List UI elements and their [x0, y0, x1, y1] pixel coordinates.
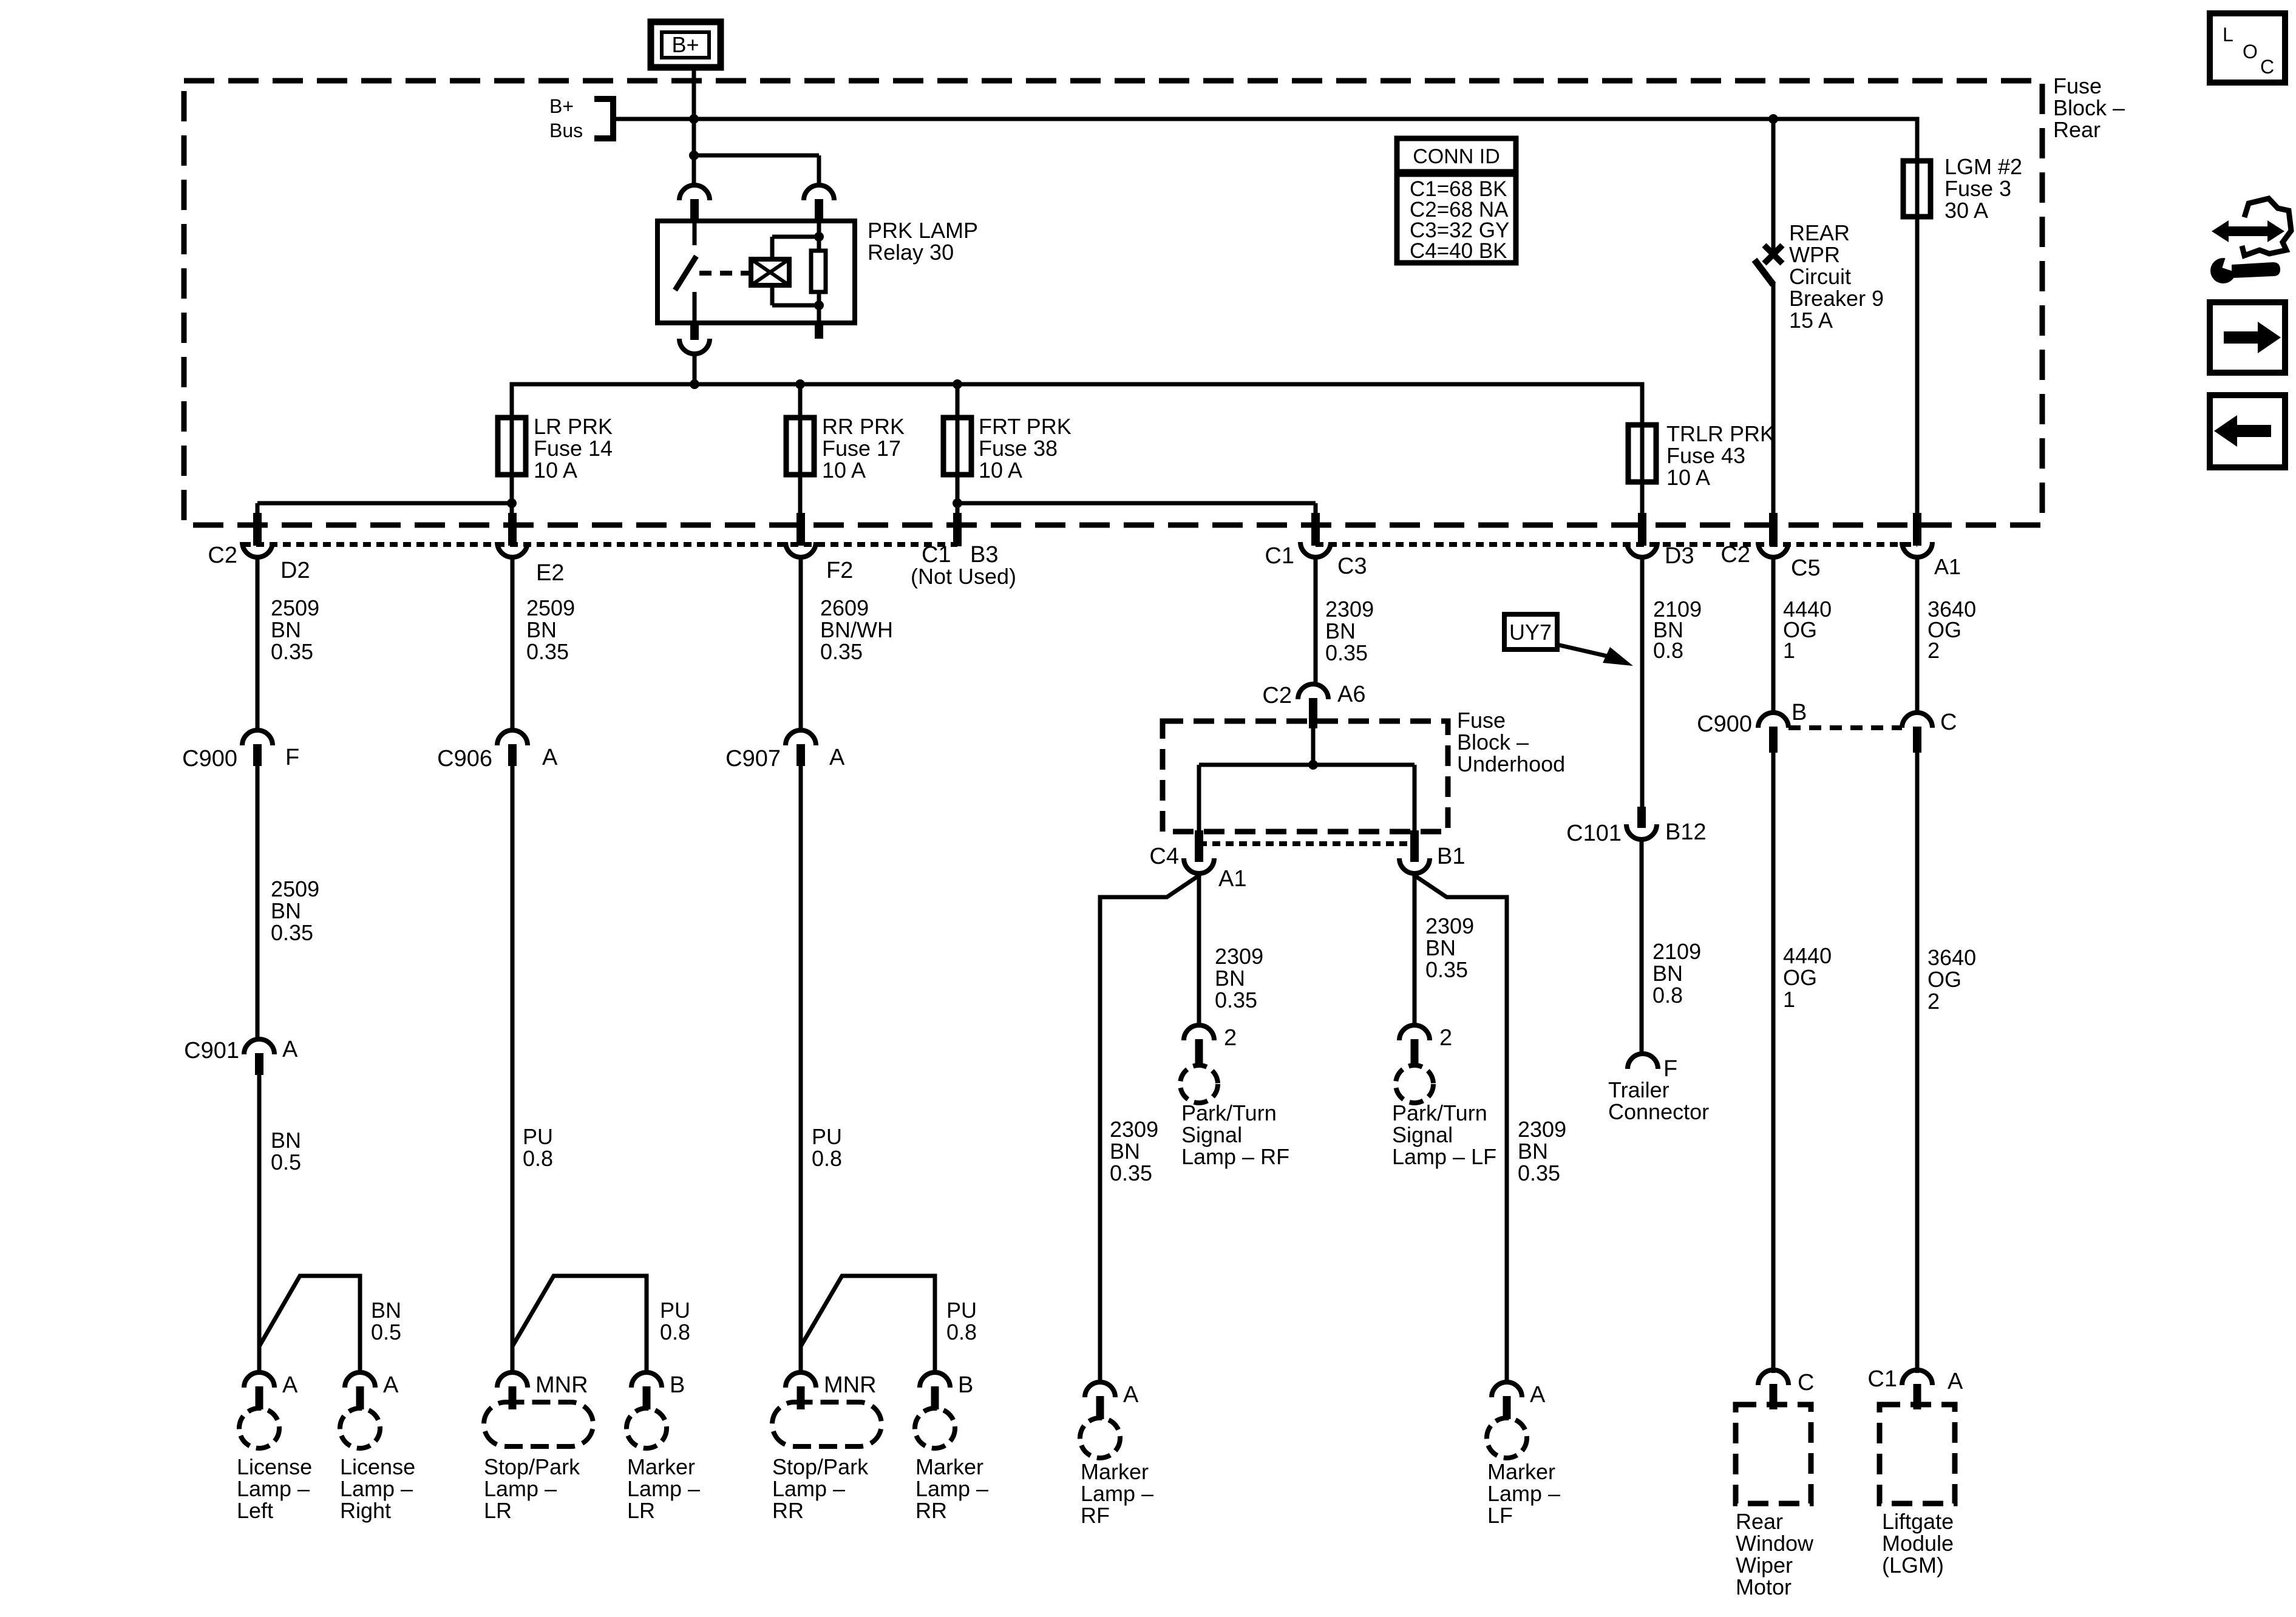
wire F2 to C907 — [799, 557, 803, 731]
svg-text:0.35: 0.35 — [271, 639, 313, 664]
connector trailer pin F (dome) — [1628, 1054, 1658, 1069]
svg-text:Window: Window — [1736, 1531, 1814, 1556]
svg-text:C1: C1 — [1265, 543, 1294, 569]
svg-text:B: B — [670, 1372, 685, 1398]
svg-text:C901: C901 — [184, 1038, 239, 1063]
connector row dotted line C1/C2 rear fuse block — [243, 542, 957, 547]
svg-text:BN: BN — [271, 898, 301, 923]
wire C906 to LR lamps — [511, 766, 515, 1373]
svg-text:10 A: 10 A — [1666, 465, 1710, 490]
connector Marker Lamp RR pin B (dome) — [920, 1372, 950, 1409]
svg-text:Stop/Park: Stop/Park — [484, 1454, 580, 1479]
svg-text:B1: B1 — [1437, 844, 1465, 869]
label wire 2309 BN 0.35 (park/turn LF) — [1425, 914, 1474, 982]
svg-text:Connector: Connector — [1608, 1099, 1709, 1124]
svg-text:RR: RR — [915, 1498, 947, 1523]
svg-text:C5: C5 — [1791, 555, 1821, 581]
icon hand-tool navigation — [2210, 198, 2291, 283]
B+ bus wire — [613, 119, 1917, 164]
junction coil top — [814, 232, 824, 242]
connector Stop/Park Lamp LR pin MNR (dome) — [497, 1372, 528, 1409]
wire relay output to distribution — [693, 354, 697, 384]
svg-text:10 A: 10 A — [979, 458, 1022, 483]
wire C5 to C900 B — [1771, 557, 1776, 713]
svg-text:Lamp –: Lamp – — [237, 1476, 310, 1501]
svg-text:3640: 3640 — [1927, 945, 1976, 970]
svg-text:D2: D2 — [280, 558, 310, 583]
svg-text:Circuit: Circuit — [1789, 264, 1851, 289]
svg-text:Signal: Signal — [1181, 1122, 1242, 1147]
label wire PU 0.8 (marker RR) — [946, 1298, 977, 1344]
wire FRT PRK fuse output — [956, 388, 960, 515]
underhood internal wire — [1199, 765, 1415, 830]
fuse LGM #2 Fuse 3 30A — [1903, 161, 1931, 217]
wire B+ box to bus — [692, 67, 696, 119]
svg-text:Right: Right — [340, 1498, 391, 1523]
svg-text:RR: RR — [772, 1498, 804, 1523]
svg-text:A1: A1 — [1934, 554, 1961, 579]
svg-text:Underhood: Underhood — [1457, 751, 1565, 776]
junction relay branch — [689, 151, 699, 160]
svg-text:A: A — [1948, 1369, 1963, 1394]
Rear Window Wiper Motor dashed box — [1736, 1405, 1811, 1503]
wire RR PRK fuse output — [798, 388, 803, 525]
svg-text:BN: BN — [371, 1298, 401, 1323]
svg-text:Stop/Park: Stop/Park — [772, 1454, 869, 1479]
label wire 2609 BN/WH 0.35 (F2) — [820, 595, 893, 664]
svg-text:REAR: REAR — [1789, 220, 1850, 245]
svg-text:L: L — [2223, 24, 2233, 46]
wire C3 to A6 — [1314, 557, 1318, 685]
B+ bus bracket — [594, 99, 613, 138]
svg-text:A: A — [829, 745, 845, 770]
svg-text:0.8: 0.8 — [1653, 638, 1683, 663]
svg-text:LR PRK: LR PRK — [534, 414, 613, 439]
label wire 2509 BN 0.35 (C900-C901) — [271, 876, 319, 945]
label Marker Lamp - RF — [1081, 1459, 1153, 1528]
connector liftgate C1 pin A (dome) — [1902, 1370, 1932, 1409]
label wire PU 0.8 (RR) — [812, 1124, 842, 1171]
Park/Turn Signal Lamp RF bulb (dashed circle) — [1180, 1065, 1218, 1103]
svg-text:2309: 2309 — [1325, 597, 1374, 622]
svg-text:Trailer: Trailer — [1608, 1077, 1669, 1102]
label wire 2309 BN 0.35 (marker LF) — [1518, 1117, 1566, 1185]
svg-text:B12: B12 — [1665, 819, 1707, 845]
wire branch to relay switch side — [692, 155, 696, 186]
svg-text:Signal: Signal — [1392, 1122, 1453, 1147]
relay coil ground stub — [815, 323, 823, 339]
connector C901 pin A (dome) — [244, 1039, 274, 1075]
label wire PU 0.8 (marker LR) — [660, 1298, 690, 1344]
svg-text:PU: PU — [660, 1298, 690, 1323]
svg-text:C101: C101 — [1566, 821, 1622, 846]
connector Marker Lamp LF pin A (dome) — [1492, 1382, 1522, 1419]
wire A1 to C — [1915, 557, 1920, 713]
fuse block underhood dashed box — [1163, 721, 1448, 832]
svg-text:1: 1 — [1783, 638, 1795, 663]
svg-text:0.8: 0.8 — [1652, 983, 1683, 1008]
wire LR PRK fuse output — [510, 425, 514, 525]
connector Marker Lamp LR pin B (dome) — [631, 1372, 662, 1409]
svg-text:2509: 2509 — [271, 876, 319, 901]
connector pin C2-E2 (stub into cup) — [497, 513, 528, 557]
wire C101 to trailer connector — [1640, 839, 1644, 1054]
svg-text:BN: BN — [1325, 619, 1356, 643]
svg-text:A: A — [1530, 1382, 1546, 1408]
wire B1 to park/turn LF and marker LF — [1413, 873, 1507, 1383]
UY7 option callout box with arrow — [1504, 614, 1633, 666]
connector C2 pin A6 (dome) — [1298, 684, 1328, 728]
svg-text:O: O — [2243, 41, 2258, 63]
svg-text:Fuse: Fuse — [2053, 73, 2102, 98]
label License Lamp - Right — [340, 1454, 415, 1523]
svg-text:Lamp –: Lamp – — [1081, 1481, 1153, 1506]
CONN ID table — [1397, 138, 1516, 263]
label wire BN 0.5 (C901) — [271, 1128, 301, 1175]
svg-text:A1: A1 — [1218, 866, 1246, 892]
battery feed B+ terminal box — [651, 22, 721, 67]
svg-text:(Not Used): (Not Used) — [911, 564, 1016, 589]
svg-text:0.8: 0.8 — [523, 1146, 553, 1171]
svg-text:Marker: Marker — [915, 1454, 983, 1479]
svg-text:C2: C2 — [1720, 542, 1750, 568]
Stop/Park Lamp RR bulb (dashed stadium) — [772, 1402, 881, 1446]
wire D3 to C101 — [1640, 557, 1645, 808]
Marker Lamp LF bulb (dashed circle) — [1487, 1418, 1527, 1458]
svg-text:C1: C1 — [1867, 1366, 1897, 1392]
label TRLR PRK Fuse 43 10 A — [1666, 421, 1775, 490]
icon back arrow box — [2210, 395, 2285, 467]
svg-text:2109: 2109 — [1652, 939, 1701, 964]
connector pin C1-F2 (stub into cup) — [786, 513, 816, 557]
svg-text:PU: PU — [812, 1124, 842, 1149]
svg-text:C4=40 BK: C4=40 BK — [1410, 239, 1507, 263]
label Marker Lamp - RR — [915, 1454, 988, 1523]
svg-text:Lamp –: Lamp – — [772, 1476, 845, 1501]
svg-text:(LGM): (LGM) — [1882, 1553, 1944, 1578]
svg-text:30 A: 30 A — [1944, 198, 1988, 223]
svg-text:2: 2 — [1927, 989, 1940, 1014]
label Trailer Connector — [1608, 1077, 1709, 1124]
svg-text:MNR: MNR — [824, 1372, 877, 1398]
wire jog to pin D2 — [257, 503, 512, 516]
svg-text:License: License — [340, 1454, 415, 1479]
junction FRT fuse to C3 jog — [953, 498, 962, 508]
wire C to liftgate module — [1915, 753, 1920, 1373]
svg-text:A: A — [282, 1372, 298, 1398]
relay pin connector switch-side (dome) — [679, 185, 710, 222]
svg-text:2509: 2509 — [271, 595, 319, 620]
svg-text:TRLR PRK: TRLR PRK — [1666, 421, 1775, 446]
svg-text:Module: Module — [1882, 1531, 1954, 1556]
Park/Turn Signal Lamp LF bulb (dashed circle) — [1396, 1065, 1433, 1103]
label wire 2309 BN 0.35 (marker RF) — [1110, 1117, 1158, 1185]
svg-text:0.5: 0.5 — [271, 1150, 301, 1175]
svg-text:Liftgate: Liftgate — [1882, 1509, 1954, 1534]
svg-text:A: A — [282, 1037, 298, 1062]
svg-text:C907: C907 — [725, 746, 781, 771]
svg-text:A: A — [542, 745, 558, 770]
label wire 2309 BN 0.35 (C3) — [1325, 597, 1374, 665]
svg-text:Lamp –: Lamp – — [340, 1476, 413, 1501]
svg-text:Fuse 14: Fuse 14 — [534, 436, 613, 461]
connector C900 pin F (dome) — [242, 730, 273, 766]
relay internal wiring coil-resistor loop — [772, 222, 819, 323]
svg-text:Fuse: Fuse — [1457, 708, 1506, 733]
License Lamp Left bulb (dashed circle) — [239, 1408, 279, 1448]
label wire BN 0.5 (license right) — [371, 1298, 401, 1344]
svg-text:LGM #2: LGM #2 — [1944, 154, 2022, 179]
svg-text:10 A: 10 A — [822, 458, 866, 483]
svg-text:1: 1 — [1783, 987, 1795, 1012]
connector License Lamp Left pin A (dome) — [244, 1372, 274, 1409]
svg-text:Fuse 3: Fuse 3 — [1944, 176, 2011, 201]
connector C101 pin B12 (stub into cup) — [1626, 807, 1657, 839]
connector park/turn LF pin 2 (dome) — [1399, 1025, 1430, 1064]
svg-text:2309: 2309 — [1215, 944, 1263, 969]
relay output pin connector (cup) — [679, 323, 710, 354]
svg-text:Left: Left — [237, 1498, 273, 1523]
label Stop/Park Lamp - RR — [772, 1454, 869, 1523]
svg-text:2: 2 — [1927, 638, 1940, 663]
fuse block rear dashed border — [184, 81, 2042, 525]
svg-text:BN: BN — [1110, 1139, 1140, 1164]
svg-text:RR PRK: RR PRK — [822, 414, 905, 439]
label wire 2509 BN 0.35 (D2) — [271, 595, 319, 664]
wire C901 to license lamps — [257, 1075, 262, 1373]
wire split to license lamp right — [259, 1276, 360, 1373]
svg-text:4440: 4440 — [1783, 943, 1832, 968]
svg-text:0.8: 0.8 — [660, 1320, 690, 1344]
svg-text:0.35: 0.35 — [1325, 640, 1368, 665]
svg-text:LR: LR — [627, 1498, 655, 1523]
fuse TRLR PRK Fuse 43 10A — [1628, 425, 1656, 482]
svg-text:C: C — [2260, 56, 2274, 78]
svg-text:2309: 2309 — [1110, 1117, 1158, 1142]
svg-text:C4: C4 — [1149, 844, 1179, 869]
wire A1 to park/turn RF and marker RF — [1100, 873, 1200, 1383]
icon forward arrow box — [2210, 302, 2285, 373]
svg-text:CONN ID: CONN ID — [1413, 145, 1500, 168]
svg-text:Lamp – RF: Lamp – RF — [1181, 1144, 1289, 1169]
relay PRK LAMP Relay 30 box — [657, 221, 855, 323]
svg-text:WPR: WPR — [1789, 242, 1840, 267]
License Lamp Right bulb (dashed circle) — [340, 1408, 380, 1448]
svg-text:F: F — [285, 745, 299, 770]
label Liftgate Module (LGM) — [1882, 1509, 1954, 1578]
label wire 2509 BN 0.35 (E2) — [526, 595, 575, 664]
svg-text:LF: LF — [1487, 1503, 1513, 1528]
svg-text:RF: RF — [1081, 1503, 1110, 1528]
connector pin C1-C3 (stub into cup) — [1300, 513, 1331, 557]
svg-text:0.35: 0.35 — [1425, 957, 1468, 982]
svg-text:FRT PRK: FRT PRK — [979, 414, 1072, 439]
label wire 2309 BN 0.35 (park/turn RF) — [1215, 944, 1263, 1012]
fuse RR PRK Fuse 17 10A — [786, 418, 814, 475]
svg-text:0.8: 0.8 — [812, 1146, 842, 1171]
connector C907 pin A (dome) — [786, 730, 816, 766]
wire branch to relay coil side — [694, 154, 819, 158]
svg-text:BN/WH: BN/WH — [820, 617, 893, 642]
junction underhood split — [1308, 760, 1318, 770]
label Rear Window Wiper Motor — [1736, 1509, 1814, 1599]
wire LGM fuse to pin A1 — [1915, 158, 1920, 525]
wire C900 to C901 — [256, 766, 260, 1040]
relay coil suppression resistor — [811, 251, 826, 292]
svg-text:B+: B+ — [549, 95, 574, 117]
wire D2 to C900 — [256, 557, 260, 731]
svg-text:2609: 2609 — [820, 595, 869, 620]
svg-text:BN: BN — [271, 1128, 301, 1153]
label wire PU 0.8 (LR) — [523, 1124, 553, 1171]
connector pin B1 (stub into cup) — [1399, 830, 1430, 873]
svg-text:F2: F2 — [826, 558, 853, 583]
svg-text:Lamp –: Lamp – — [627, 1476, 700, 1501]
svg-text:E2: E2 — [536, 560, 564, 586]
svg-text:2509: 2509 — [526, 595, 575, 620]
label PRK LAMP Relay 30 — [868, 218, 978, 265]
wire split to marker lamp LR — [512, 1276, 647, 1373]
wire jog to pin C3 — [957, 503, 1316, 525]
svg-text:2309: 2309 — [1425, 914, 1474, 938]
Marker Lamp LR bulb (dashed circle) — [627, 1408, 667, 1448]
svg-text:Marker: Marker — [1081, 1459, 1149, 1484]
connector park/turn RF pin 2 (dome) — [1184, 1025, 1214, 1064]
Stop/Park Lamp LR bulb (dashed stadium) — [484, 1402, 593, 1446]
svg-text:BN: BN — [1425, 935, 1456, 960]
svg-text:BN: BN — [526, 617, 557, 642]
connector Stop/Park Lamp RR pin MNR (dome) — [786, 1372, 816, 1409]
connector pin C2-C5 (stub into cup) — [1758, 513, 1788, 557]
icon LOC box — [2210, 13, 2285, 83]
svg-text:Fuse 38: Fuse 38 — [979, 436, 1058, 461]
svg-text:0.35: 0.35 — [1215, 988, 1257, 1012]
svg-text:PU: PU — [946, 1298, 977, 1323]
svg-text:Lamp – LF: Lamp – LF — [1392, 1144, 1496, 1169]
dashed link C900 B to C — [1788, 725, 1902, 730]
svg-text:2: 2 — [1439, 1025, 1452, 1051]
svg-text:C: C — [1798, 1370, 1814, 1395]
svg-text:MNR: MNR — [535, 1372, 588, 1398]
svg-text:0.5: 0.5 — [371, 1320, 401, 1344]
label wire 4440 OG 1 (C5) — [1783, 597, 1832, 663]
svg-text:C2: C2 — [208, 543, 237, 568]
junction bus / breaker feed — [1768, 114, 1778, 124]
label RR PRK Fuse 17 10 A — [822, 414, 905, 483]
wire E2 to C906 — [511, 557, 515, 731]
connector wiper pin C (dome) — [1758, 1370, 1788, 1409]
relay switch contact — [675, 221, 696, 323]
svg-text:Park/Turn: Park/Turn — [1181, 1100, 1277, 1125]
label Fuse Block - Rear — [2053, 73, 2125, 142]
svg-text:Motor: Motor — [1736, 1575, 1792, 1599]
relay pin connector coil-side (dome) — [804, 185, 834, 222]
svg-text:Marker: Marker — [1487, 1459, 1555, 1484]
label Marker Lamp - LR — [627, 1454, 700, 1523]
svg-text:0.35: 0.35 — [1518, 1161, 1560, 1185]
label wire 3640 OG 2 (A1) — [1927, 597, 1976, 663]
wire A6 into underhood block — [1311, 728, 1316, 765]
svg-text:2: 2 — [1224, 1025, 1237, 1051]
label LR PRK Fuse 14 10 A — [534, 414, 613, 483]
underhood connector dotted line — [1199, 841, 1415, 846]
junction distribution at FRT PRK fuse — [953, 379, 962, 389]
svg-text:PU: PU — [523, 1124, 553, 1149]
svg-text:Lamp –: Lamp – — [484, 1476, 557, 1501]
wire TRLR PRK fuse output — [1640, 425, 1645, 525]
svg-text:BN: BN — [1518, 1139, 1548, 1164]
wire C900 B to wiper motor — [1771, 753, 1776, 1373]
svg-text:C3: C3 — [1337, 554, 1367, 579]
circuit breaker REAR WPR 9 15A — [1754, 119, 1782, 525]
svg-text:Block –: Block – — [1457, 730, 1529, 754]
svg-text:BN: BN — [271, 617, 301, 642]
connector pin A1 (stub into cup) — [1902, 513, 1932, 557]
svg-text:0.35: 0.35 — [526, 639, 569, 664]
svg-text:License: License — [237, 1454, 312, 1479]
svg-text:UY7: UY7 — [1509, 620, 1552, 645]
svg-text:A: A — [1123, 1382, 1139, 1408]
label Stop/Park Lamp - LR — [484, 1454, 580, 1523]
relay actuation dashed link — [699, 271, 749, 276]
svg-text:Block –: Block – — [2053, 95, 2125, 120]
svg-text:C900: C900 — [1697, 711, 1752, 737]
connector C906 pin A (dome) — [497, 730, 528, 766]
label wire 2109 BN 0.8 (trailer) — [1652, 939, 1701, 1008]
svg-text:C900: C900 — [182, 746, 237, 771]
svg-text:A: A — [383, 1372, 399, 1398]
Marker Lamp RR bulb (dashed circle) — [915, 1408, 955, 1448]
svg-text:OG: OG — [1783, 965, 1817, 990]
svg-text:Rear: Rear — [2053, 117, 2101, 142]
junction bus / relay feed — [689, 114, 699, 124]
parking lamp distribution wire — [512, 384, 1642, 431]
svg-text:10 A: 10 A — [534, 458, 577, 483]
label C1 B3 (Not Used) — [911, 542, 1016, 589]
svg-text:A6: A6 — [1337, 682, 1365, 707]
svg-text:C906: C906 — [437, 746, 492, 771]
Liftgate Module dashed box — [1880, 1405, 1955, 1503]
connector pin C2-D2 (stub into cup) — [242, 513, 273, 557]
svg-text:Bus: Bus — [549, 120, 583, 141]
connector Marker Lamp RF pin A (dome) — [1085, 1382, 1115, 1419]
svg-text:B: B — [958, 1372, 973, 1398]
svg-text:Rear: Rear — [1736, 1509, 1783, 1534]
label Marker Lamp - LF — [1487, 1459, 1560, 1528]
svg-text:Marker: Marker — [627, 1454, 695, 1479]
svg-text:Lamp –: Lamp – — [1487, 1481, 1560, 1506]
junction coil bottom — [814, 300, 824, 310]
label wire 3640 OG 2 (liftgate) — [1927, 945, 1976, 1014]
svg-text:B+: B+ — [671, 32, 699, 57]
connector pin D3 (stub into cup) — [1627, 513, 1657, 557]
svg-text:Wiper: Wiper — [1736, 1553, 1793, 1578]
svg-text:0.35: 0.35 — [271, 920, 313, 945]
connector License Lamp Right pin A (dome) — [345, 1372, 375, 1409]
svg-text:0.35: 0.35 — [820, 639, 863, 664]
svg-text:Breaker 9: Breaker 9 — [1789, 286, 1884, 311]
label FRT PRK Fuse 38 10 A — [979, 414, 1072, 483]
svg-text:Fuse 43: Fuse 43 — [1666, 443, 1745, 468]
label Park/Turn Signal Lamp - RF — [1181, 1100, 1289, 1169]
svg-text:OG: OG — [1927, 967, 1961, 992]
junction distribution at RR PRK fuse — [795, 379, 805, 389]
svg-text:Park/Turn: Park/Turn — [1392, 1100, 1487, 1125]
label License Lamp - Left — [237, 1454, 312, 1523]
connector pin C4-A1 (stub into cup) — [1184, 830, 1214, 873]
label wire 4440 OG 1 (wiper) — [1783, 943, 1832, 1012]
label LGM #2 Fuse 3 30 A — [1944, 154, 2022, 223]
